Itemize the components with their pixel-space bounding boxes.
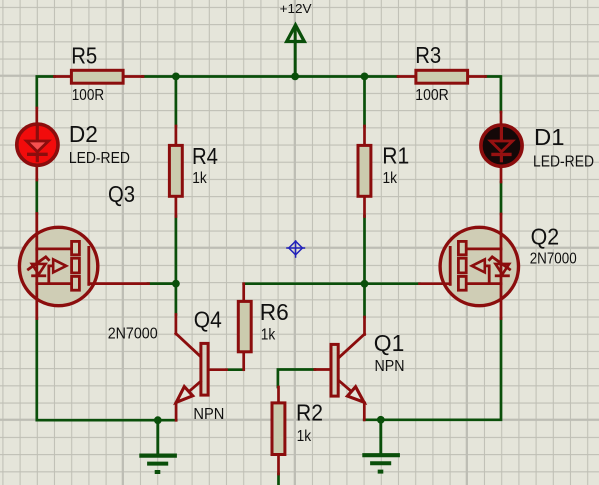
svg-text:1k: 1k — [297, 428, 312, 445]
Q1 emitter diagonal — [340, 382, 364, 403]
svg-text:Q3: Q3 — [108, 181, 135, 207]
Q4 emitter pin — [175, 403, 178, 421]
svg-text:100R: 100R — [72, 87, 104, 104]
svg-text:1k: 1k — [383, 170, 398, 187]
Q4 base bar — [201, 343, 208, 395]
resistor R1 — [358, 126, 409, 217]
Q4 emitter arrow — [176, 387, 192, 403]
Q3 body diode bar — [33, 274, 45, 277]
wire top rail left — [37, 77, 55, 109]
svg-text:NPN: NPN — [375, 358, 405, 375]
svg-text:D2: D2 — [69, 121, 98, 147]
Q2 top bar to drain contact — [467, 247, 502, 250]
svg-text:2N7000: 2N7000 — [530, 251, 577, 268]
wire Q1 collector link — [363, 284, 366, 317]
wire mid-right rail — [244, 282, 420, 285]
transistor Q1 (NPN) — [315, 317, 405, 420]
resistor R6 — [238, 284, 288, 370]
Q4 emitter diagonal — [176, 382, 200, 403]
wire Q4 collector link — [175, 284, 178, 315]
Q1 base bar — [331, 344, 338, 396]
Q4 collector diagonal — [176, 334, 201, 357]
junction node top rail at R1 — [361, 73, 369, 81]
junction node top rail at R4 — [172, 73, 180, 81]
junction node bottom-right ground tap — [377, 416, 385, 424]
svg-text:R3: R3 — [415, 42, 441, 68]
junction node mid-left — [172, 280, 180, 288]
svg-text:+12V: +12V — [280, 2, 313, 16]
Q3 substrate connector — [49, 266, 53, 284]
Q2 drain contact rectangle — [458, 241, 466, 254]
svg-text:R5: R5 — [71, 42, 97, 68]
svg-text:R2: R2 — [296, 399, 323, 425]
MOSFET Q2 (2N7000) — [420, 214, 577, 319]
LED D2 (lit, red) — [17, 108, 130, 180]
LED D1 (off, dark) — [481, 112, 594, 182]
Q1 base pin — [315, 368, 331, 371]
wire D1 to Q2 — [500, 182, 503, 214]
Q2 bottom bar to source contact — [467, 282, 502, 285]
Q2 body diode triangle — [495, 264, 509, 275]
Q2 drain/source vertical line — [500, 214, 503, 319]
wire Q2 to bottom-right rail — [364, 319, 501, 420]
svg-text:R1: R1 — [382, 143, 409, 169]
junction node top rail at +12V — [291, 73, 299, 81]
Q3 gate pin — [89, 282, 149, 285]
Q4 base pin — [210, 368, 227, 371]
svg-text:LED-RED: LED-RED — [69, 150, 130, 167]
resistor R5 — [55, 42, 144, 104]
wire mid-left rail — [148, 282, 176, 285]
wire R1 bottom link — [363, 216, 366, 284]
resistor R2 — [272, 387, 323, 474]
wire R6 bottom to Q4 base — [227, 368, 244, 371]
ground right — [362, 420, 400, 472]
svg-text:LED-RED: LED-RED — [533, 153, 594, 170]
Q1 collector pin — [363, 317, 366, 335]
Q3 source/drain vertical line — [35, 214, 38, 319]
Q1 emitter pin — [363, 403, 366, 420]
svg-text:1k: 1k — [192, 170, 207, 187]
resistor R4 — [169, 126, 218, 217]
Q2 body diode diagonal — [489, 257, 509, 269]
svg-text:2N7000: 2N7000 — [108, 326, 158, 343]
MOSFET Q3 (2N7000) — [19, 181, 157, 343]
Q3 gate bar — [87, 247, 90, 284]
wire R4 bottom link — [175, 216, 178, 284]
Q2 gate bar — [449, 247, 452, 284]
Q1 collector diagonal — [340, 334, 365, 357]
Q2 source contact rectangle — [458, 276, 466, 290]
wire Q3 to bottom-left rail — [37, 319, 176, 421]
Q2 substrate connector — [486, 266, 490, 284]
junction node mid-right — [361, 280, 369, 288]
Q2 gate pin — [420, 282, 451, 285]
svg-text:Q4: Q4 — [194, 307, 222, 333]
Q3 body diode triangle — [32, 264, 46, 275]
svg-text:Q1: Q1 — [374, 330, 405, 356]
wire D2 to Q3 — [35, 180, 38, 214]
origin marker — [286, 240, 305, 258]
svg-text:NPN: NPN — [193, 406, 224, 423]
wire top rail right with corner down to D1 — [486, 77, 501, 113]
junction node bottom-left ground tap — [154, 416, 162, 424]
Q3 bottom bar to source contact — [37, 282, 72, 285]
Q2 body contact rectangle — [458, 258, 466, 273]
Q3 substrate arrow triangle — [53, 259, 66, 272]
wire R4 top link — [175, 77, 178, 127]
Q4 collector pin — [175, 315, 178, 335]
wire R2 bottom stub — [277, 474, 280, 485]
svg-text:R6: R6 — [260, 299, 289, 325]
Q3 body diode diagonal — [28, 257, 48, 269]
svg-text:Q2: Q2 — [531, 224, 560, 250]
wire Q1 base with corner down to R2 — [278, 370, 315, 388]
Q3 top bar to drain contact — [37, 247, 72, 250]
svg-text:1k: 1k — [261, 326, 276, 343]
Q3 drain contact rectangle — [72, 241, 80, 254]
svg-text:100R: 100R — [415, 87, 448, 104]
transistor Q4 (NPN) — [176, 307, 227, 424]
Q2 substrate arrow triangle — [472, 259, 485, 272]
Q3 body contact rectangle — [72, 258, 80, 273]
resistor R3 — [398, 42, 486, 104]
svg-text:D1: D1 — [534, 124, 565, 150]
ground left — [139, 420, 177, 472]
Q3 source contact rectangle — [72, 276, 80, 290]
svg-text:R4: R4 — [192, 143, 218, 169]
Q2 body diode bar — [496, 274, 508, 277]
wire R1 top link — [363, 77, 366, 127]
wire top rail middle — [143, 75, 399, 78]
power symbol +12V — [280, 2, 313, 76]
Q1 emitter arrow — [347, 387, 364, 403]
